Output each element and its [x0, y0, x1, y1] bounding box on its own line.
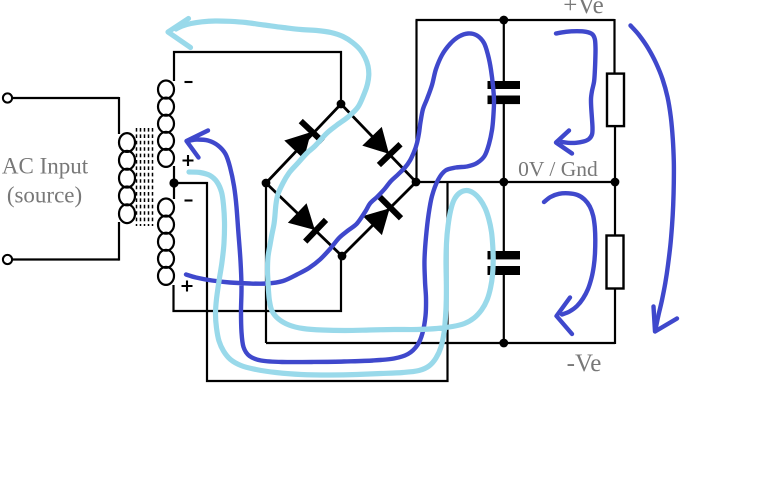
wire secondary center tap lead [173, 166, 175, 199]
wire center tap return [174, 182, 448, 381]
label secondary lower minus [185, 199, 193, 201]
wire secondary bottom to bridge bottom [174, 256, 342, 311]
wire C1 bottom lead [503, 103, 505, 182]
node bridge right [412, 178, 421, 187]
wire bridge lower edges [266, 182, 416, 256]
transformer T1 secondary upper winding [158, 81, 174, 167]
wire R2 bottom lead [614, 288, 616, 344]
arrowhead dark blue main [187, 131, 209, 158]
resistor R2 [607, 236, 624, 289]
hand-drawn dark blue arrow right side [631, 26, 674, 328]
wire R2 top lead [614, 182, 616, 236]
arrowhead dark blue lower-right [557, 298, 573, 335]
wire primary bottom lead [118, 222, 120, 261]
label secondary lower plus [182, 281, 193, 292]
diode D2 (bridge upper-right) [361, 126, 402, 167]
wire bridge left node to -Ve rail [265, 183, 267, 343]
wire -Ve rail [266, 342, 615, 344]
diode D1 (bridge upper-left) [283, 119, 324, 160]
wire R1 top lead [613, 19, 615, 74]
wire +Ve top rail [416, 19, 615, 21]
hand-drawn dark blue loop upper-right [556, 31, 596, 143]
AC input terminal bottom [3, 255, 12, 264]
node bridge top [337, 100, 346, 109]
capacitor C1 [488, 81, 521, 104]
label secondary upper plus [183, 155, 194, 166]
transformer T1 core [137, 128, 153, 226]
svg-text:0V / Gnd: 0V / Gnd [518, 157, 598, 181]
svg-text:AC Input: AC Input [2, 154, 89, 179]
wire secondary top rail [174, 52, 341, 104]
wire AC bottom to primary [12, 258, 119, 260]
wire C2 bottom lead [503, 274, 505, 343]
node bridge left [262, 179, 271, 188]
resistor R1 [607, 74, 624, 127]
diode D4 (bridge lower-right) [362, 195, 403, 236]
arrowhead dark blue upper-right [556, 131, 572, 154]
node 0V C junction [499, 178, 508, 187]
hand-drawn light blue current loop [176, 21, 493, 375]
label secondary upper minus [185, 81, 193, 83]
svg-text:-Ve: -Ve [567, 350, 602, 377]
wire R1 bottom lead [614, 126, 616, 182]
wire bridge right node to +Ve rail [415, 20, 417, 182]
node 0V R junction [611, 178, 620, 187]
wire AC top to primary [12, 97, 119, 99]
AC input terminal top [3, 93, 12, 102]
node +Ve rail C1 junction [499, 16, 508, 25]
wire 0V rail [416, 181, 615, 183]
arrowhead dark blue right side [654, 307, 678, 332]
wire C1 top lead [503, 20, 505, 82]
wire C2 top lead [503, 182, 505, 252]
svg-text:(source): (source) [7, 183, 82, 208]
wire bridge upper edges [266, 104, 416, 183]
transformer T1 primary winding [119, 133, 135, 223]
diode D3 (bridge lower-left) [287, 202, 328, 243]
hand-drawn dark blue loop lower-right [544, 193, 595, 314]
node bridge bottom [338, 252, 347, 261]
hand-drawn dark blue current loop (main) [186, 33, 494, 362]
transformer T1 secondary lower winding [158, 199, 174, 285]
wire primary top lead [118, 97, 120, 134]
capacitor C2 [488, 251, 521, 275]
svg-text:+Ve: +Ve [563, 0, 603, 19]
node center tap [169, 178, 178, 187]
arrowhead light blue [168, 19, 191, 48]
node -Ve C2 junction [499, 339, 508, 348]
